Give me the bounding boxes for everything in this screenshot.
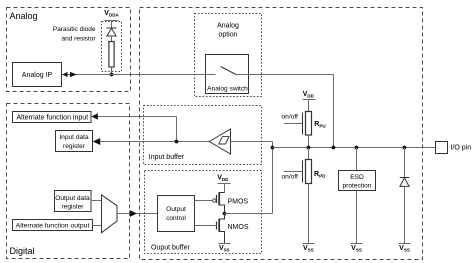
Output data register box (55, 191, 92, 212)
Ouput buffer label (151, 245, 190, 252)
Input buffer label (149, 154, 185, 161)
wire resistor to analog line (111, 67, 113, 75)
svg-text:Ouput buffer: Ouput buffer (151, 245, 190, 252)
output mux (102, 195, 118, 233)
VSS diode (399, 244, 411, 253)
svg-text:PMOS: PMOS (228, 199, 249, 206)
svg-text:Digital: Digital (10, 246, 35, 256)
ESD protection box (339, 171, 376, 191)
on/off switch wire pull-down (284, 161, 303, 183)
svg-text:Parasitic diode: Parasitic diode (53, 26, 96, 33)
svg-text:on/off: on/off (282, 114, 299, 121)
VDD supply pull-up (303, 91, 316, 112)
wire main line to RPD (308, 148, 310, 160)
parasitic diode D1 (107, 28, 117, 36)
wire output data register to mux (91, 200, 102, 202)
Digital region label (10, 246, 35, 256)
junction dot RPU/RPD (307, 146, 311, 150)
wire input data register to schmitt (98, 141, 210, 143)
wire drain to vertical (225, 213, 273, 215)
svg-text:Alternate function input: Alternate function input (16, 114, 88, 121)
svg-text:Input data: Input data (59, 134, 89, 141)
Analog IP box (13, 63, 62, 87)
junction dot parasitic/analog (110, 73, 114, 77)
svg-text:Output: Output (166, 206, 186, 213)
transistor NMOS (217, 214, 249, 244)
wire output control to PMOS gate (195, 200, 213, 202)
wire alt function output to mux (93, 225, 102, 227)
wire mux to output control (117, 213, 158, 215)
VDD supply PMOS (217, 175, 230, 193)
Analog option label (217, 23, 239, 39)
svg-text:NMOS: NMOS (228, 224, 249, 231)
bidirectional arrowheads at Analog IP (62, 72, 77, 77)
svg-text:control: control (166, 215, 186, 222)
svg-text:protection: protection (343, 183, 372, 190)
on/off label pull-down (282, 174, 299, 181)
wire main line to diode (404, 148, 406, 178)
schmitt trigger input buffer (209, 129, 230, 154)
VSS ESD (351, 244, 363, 253)
vertical wire between input lines (176, 117, 178, 142)
Parasitic diode and resistor label (53, 26, 96, 43)
junction dot input lines (175, 140, 179, 144)
analog wire left segment (62, 74, 216, 76)
wire alt function input (96, 116, 177, 118)
svg-text:Output data: Output data (55, 195, 90, 202)
svg-text:option: option (218, 32, 237, 39)
svg-text:Analog switch: Analog switch (207, 86, 248, 93)
wire output control to NMOS gate (195, 225, 217, 227)
transistor PMOS (213, 193, 249, 214)
wire main line to ESD box (356, 148, 358, 171)
Analog region label (10, 11, 38, 21)
vertical wire jog down to output line (272, 142, 274, 214)
resistor R_PD (306, 160, 327, 184)
I/O pin box (436, 142, 472, 154)
svg-text:Input buffer: Input buffer (149, 154, 185, 161)
svg-text:I/O pin: I/O pin (451, 145, 472, 152)
junction dot protection diode (403, 146, 407, 150)
wire RPD to VSS (308, 184, 310, 244)
Input buffer dashed box (144, 106, 262, 165)
svg-text:register: register (62, 204, 85, 211)
Alternate function input box (13, 112, 92, 123)
svg-text:Analog: Analog (10, 11, 38, 21)
Input data register box (56, 131, 93, 152)
on/off switch wire pull-up (284, 113, 303, 135)
analog wire right segment (236, 74, 334, 76)
svg-text:Analog IP: Analog IP (22, 72, 53, 79)
junction dot ESD (355, 146, 359, 150)
wire ESD box to VSS (356, 191, 358, 244)
parasitic elements dashed box (102, 22, 122, 72)
Output buffer dashed box (145, 171, 262, 254)
arrowhead into output control (130, 210, 137, 217)
resistor R_PU (306, 112, 326, 136)
svg-text:Analog: Analog (217, 23, 239, 30)
Analog option dashed box (195, 14, 262, 97)
wire schmitt base to jog (231, 141, 273, 143)
wire diode to VSS (404, 186, 406, 243)
wire VDDA to diode (111, 21, 113, 29)
analog switch blade (221, 67, 237, 75)
main I/O line (273, 147, 436, 149)
VDDA supply label (104, 10, 119, 21)
svg-text:register: register (63, 143, 86, 150)
Output control box (158, 196, 195, 232)
svg-text:and resistor: and resistor (62, 36, 97, 43)
wire diode to resistor (111, 36, 113, 42)
wire RPU to main line (308, 135, 310, 148)
Analog region dashed box (7, 8, 131, 92)
VSS NMOS (219, 244, 231, 253)
arrowhead into alternate function input (91, 113, 98, 120)
on/off label pull-up (282, 114, 299, 121)
arrowhead into input data register (93, 138, 100, 145)
analog vertical wire to main line (333, 75, 335, 148)
svg-text:Alternate function output: Alternate function output (16, 223, 90, 230)
junction dot PMOS/NMOS drain (223, 212, 227, 216)
VSS pull-down (303, 244, 315, 253)
Alternate function output box (13, 220, 93, 231)
parasitic resistor (109, 42, 114, 68)
junction dot main line left (271, 146, 275, 150)
junction dot analog line (332, 146, 336, 150)
peripheral outer dashed box (140, 8, 423, 260)
Digital region dashed box (7, 104, 130, 259)
protection diode (400, 178, 410, 187)
svg-text:ESD: ESD (350, 174, 364, 181)
svg-text:on/off: on/off (282, 174, 299, 181)
Analog switch box (206, 55, 249, 94)
